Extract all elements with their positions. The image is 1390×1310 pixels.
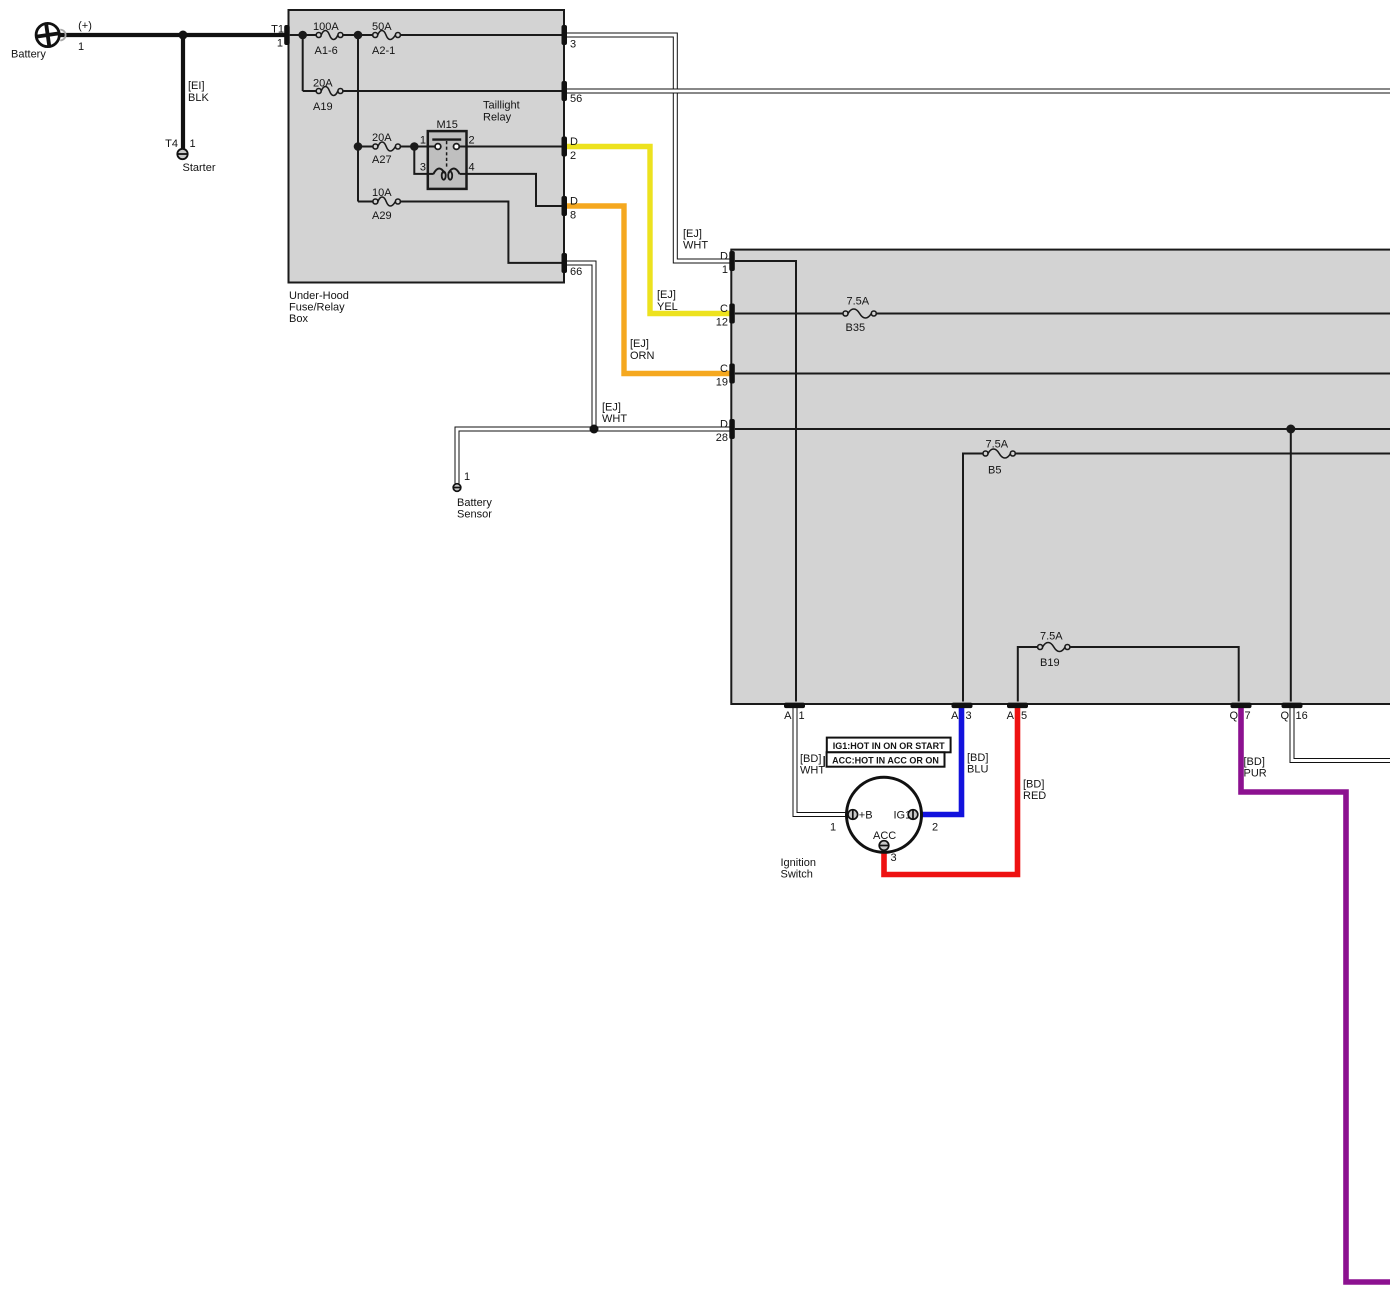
svg-text:5: 5 xyxy=(1021,710,1027,722)
wire [BD] RED A5 to ACC xyxy=(884,707,1018,875)
svg-text:M15: M15 xyxy=(436,119,457,131)
svg-text:[EI]: [EI] xyxy=(188,80,205,92)
svg-text:B19: B19 xyxy=(1040,657,1060,669)
svg-text:20A: 20A xyxy=(372,132,392,144)
svg-text:WHT: WHT xyxy=(602,413,627,425)
fuse B35 7.5A xyxy=(843,309,876,318)
svg-text:2: 2 xyxy=(932,822,938,834)
svg-text:3: 3 xyxy=(890,852,896,864)
svg-text:YEL: YEL xyxy=(657,301,678,313)
box2 wire B5 row to A3 xyxy=(963,454,1390,702)
wire [BD] PUR Q7 to bottom right xyxy=(1241,707,1390,1282)
svg-text:A1-6: A1-6 xyxy=(315,45,338,57)
svg-text:7: 7 xyxy=(1245,710,1251,722)
starter ground terminal T4 xyxy=(177,149,187,159)
connector A3 xyxy=(952,703,973,709)
svg-text:Fuse/Relay: Fuse/Relay xyxy=(289,302,345,314)
fuse A1-6 100A xyxy=(316,31,343,40)
svg-text:B35: B35 xyxy=(846,322,866,334)
caption box IG1 xyxy=(827,738,951,753)
svg-text:19: 19 xyxy=(716,377,728,389)
ignition pin 1 +B xyxy=(848,810,858,820)
svg-text:Box: Box xyxy=(289,313,308,325)
wire: A29 drop xyxy=(358,147,562,263)
fuse A27 20A xyxy=(373,142,401,151)
svg-text:Q: Q xyxy=(1280,710,1289,722)
junction at A1-6 feed xyxy=(298,31,307,40)
connector D28 xyxy=(729,419,735,439)
wire: relay pin4 to D8 xyxy=(467,174,562,206)
box2 wire D28 to right with branch to Q16 xyxy=(735,429,1390,702)
svg-text:1: 1 xyxy=(799,710,805,722)
svg-text:B5: B5 xyxy=(988,465,1001,477)
svg-text:100A: 100A xyxy=(313,21,339,33)
wire white from 56 to right edge xyxy=(567,89,1390,94)
svg-text:A: A xyxy=(784,710,792,722)
svg-text:56: 56 xyxy=(570,93,582,105)
svg-text:Ignition: Ignition xyxy=(781,857,816,869)
fuse A19 20A xyxy=(316,87,343,96)
fuse B19 7.5A xyxy=(1038,643,1070,652)
svg-text:[BD]: [BD] xyxy=(967,752,988,764)
wire [BD] BLU A3 to IG1 xyxy=(918,707,962,815)
connector C12 xyxy=(729,304,735,324)
fuse B5 7.5A xyxy=(983,449,1015,458)
svg-text:Starter: Starter xyxy=(183,162,216,174)
svg-text:1: 1 xyxy=(420,135,426,147)
box2 wire C12 through B35 to right xyxy=(735,313,1390,315)
svg-text:3: 3 xyxy=(420,162,426,174)
svg-text:2: 2 xyxy=(570,150,576,162)
caption tick xyxy=(823,756,825,766)
svg-text:D: D xyxy=(570,196,578,208)
svg-text:A2-1: A2-1 xyxy=(372,45,395,57)
connector 3 xyxy=(562,25,568,45)
junction battery/starter xyxy=(179,31,188,40)
svg-text:1: 1 xyxy=(190,138,196,150)
svg-text:D: D xyxy=(720,251,728,263)
svg-text:28: 28 xyxy=(716,432,728,444)
svg-text:[BD]: [BD] xyxy=(1023,779,1044,791)
svg-text:IG1:HOT IN ON OR START: IG1:HOT IN ON OR START xyxy=(833,741,945,751)
svg-text:T1: T1 xyxy=(271,24,284,36)
svg-text:1: 1 xyxy=(722,264,728,276)
svg-text:8: 8 xyxy=(570,210,576,222)
svg-text:4: 4 xyxy=(469,162,475,174)
wire [BD] WHT A1 to ignition +B xyxy=(795,707,848,815)
svg-text:(+): (+) xyxy=(78,20,92,32)
wire: relay pin3 branch xyxy=(414,147,428,174)
svg-text:[EJ]: [EJ] xyxy=(657,289,676,301)
under-hood fuse/relay box xyxy=(289,10,565,283)
fuse A29 10A xyxy=(373,197,401,206)
wire: drop to A19 row xyxy=(303,35,562,91)
svg-text:1: 1 xyxy=(464,471,470,483)
svg-text:1: 1 xyxy=(78,41,84,53)
svg-text:C: C xyxy=(720,303,728,315)
svg-text:Q: Q xyxy=(1229,710,1238,722)
battery sensor terminal xyxy=(453,484,461,492)
svg-text:Switch: Switch xyxy=(781,869,813,881)
svg-text:[BD]: [BD] xyxy=(800,753,821,765)
svg-text:1: 1 xyxy=(830,822,836,834)
svg-text:A27: A27 xyxy=(372,154,392,166)
caption box ACC xyxy=(827,752,945,766)
svg-text:A19: A19 xyxy=(313,101,333,113)
svg-text:WHT: WHT xyxy=(683,240,708,252)
wire: box1 main feed row y=35 xyxy=(290,34,562,36)
svg-text:ORN: ORN xyxy=(630,350,655,362)
svg-text:Battery: Battery xyxy=(457,497,492,509)
svg-text:PUR: PUR xyxy=(1244,768,1267,780)
battery B+ heavy wire xyxy=(59,33,287,37)
wire [EJ] YEL D2 to C12 xyxy=(567,147,730,314)
svg-text:2: 2 xyxy=(469,135,475,147)
connector A1 xyxy=(784,703,805,709)
svg-text:Relay: Relay xyxy=(483,112,512,124)
connector 66 xyxy=(562,253,568,273)
svg-text:3: 3 xyxy=(570,39,576,51)
connector D8 xyxy=(562,196,568,216)
svg-text:Battery: Battery xyxy=(11,49,46,61)
connector C19 xyxy=(729,364,735,384)
wire: drop to A27 row xyxy=(358,35,428,147)
svg-text:1: 1 xyxy=(277,38,283,50)
svg-text:+B: +B xyxy=(859,809,873,821)
box2 wire C19 to right xyxy=(735,373,1390,375)
taillight relay M15 xyxy=(428,131,467,189)
connector A5 xyxy=(1007,703,1028,709)
box2 wire D1 to A1 xyxy=(735,261,796,702)
connector T1 xyxy=(284,25,290,45)
svg-text:BLK: BLK xyxy=(188,92,209,104)
junction at 50A feed xyxy=(354,31,363,40)
connector Q7 xyxy=(1231,703,1252,709)
svg-text:ACC: ACC xyxy=(873,830,896,842)
svg-text:7.5A: 7.5A xyxy=(1040,631,1063,643)
svg-text:7.5A: 7.5A xyxy=(847,296,870,308)
battery xyxy=(36,23,66,46)
svg-text:[BD]: [BD] xyxy=(1244,756,1265,768)
svg-text:A29: A29 xyxy=(372,210,392,222)
svg-text:[EJ]: [EJ] xyxy=(683,228,702,240)
wire to starter xyxy=(181,35,185,149)
dash fuse/relay box xyxy=(731,250,1390,704)
svg-text:C: C xyxy=(720,363,728,375)
fuse A2-1 50A xyxy=(373,31,401,40)
connector D1 xyxy=(729,251,735,271)
svg-text:IG1: IG1 xyxy=(894,809,912,821)
svg-text:A: A xyxy=(1007,710,1015,722)
connector Q16 xyxy=(1282,703,1303,709)
svg-text:50A: 50A xyxy=(372,21,392,33)
svg-text:[EJ]: [EJ] xyxy=(630,338,649,350)
svg-text:7.5A: 7.5A xyxy=(986,439,1009,451)
wire [EJ] WHT connector3 to D1 xyxy=(567,35,730,261)
svg-text:12: 12 xyxy=(716,317,728,329)
svg-text:ACC:HOT IN ACC OR ON: ACC:HOT IN ACC OR ON xyxy=(832,755,939,765)
svg-text:3: 3 xyxy=(966,710,972,722)
svg-text:D: D xyxy=(720,419,728,431)
svg-text:Taillight: Taillight xyxy=(483,100,520,112)
ignition pin 2 IG1 xyxy=(908,810,918,820)
svg-text:[EJ]: [EJ] xyxy=(602,402,621,414)
wire [EJ] ORN D8 to C19 xyxy=(567,206,730,374)
junction before relay pin1/pin3 xyxy=(410,142,419,151)
svg-text:A: A xyxy=(951,710,959,722)
svg-text:RED: RED xyxy=(1023,790,1046,802)
svg-text:20A: 20A xyxy=(313,78,333,90)
ignition switch body xyxy=(847,777,922,852)
svg-text:Under-Hood: Under-Hood xyxy=(289,290,349,302)
svg-text:D: D xyxy=(570,136,578,148)
svg-text:10A: 10A xyxy=(372,187,392,199)
connector D2 xyxy=(562,137,568,157)
svg-text:66: 66 xyxy=(570,266,582,278)
box2 wire B19 row A5 to Q7 xyxy=(1018,647,1239,702)
wire white Q16 to right edge xyxy=(1292,707,1390,761)
svg-text:Sensor: Sensor xyxy=(457,509,492,521)
svg-text:16: 16 xyxy=(1296,710,1308,722)
connector 56 xyxy=(562,81,568,101)
svg-text:BLU: BLU xyxy=(967,764,988,776)
ignition pin 3 ACC xyxy=(879,841,889,851)
wire white 66 down to junction xyxy=(567,263,595,429)
junction at A27 row xyxy=(354,142,363,151)
svg-text:T4: T4 xyxy=(165,138,178,150)
wire: relay pin2 to D2 xyxy=(467,146,562,148)
junction white wires xyxy=(590,425,599,434)
svg-text:WHT: WHT xyxy=(800,765,825,777)
junction D28/Q16 xyxy=(1286,425,1295,434)
wire [EJ] WHT battery sensor to D28 xyxy=(457,429,730,484)
